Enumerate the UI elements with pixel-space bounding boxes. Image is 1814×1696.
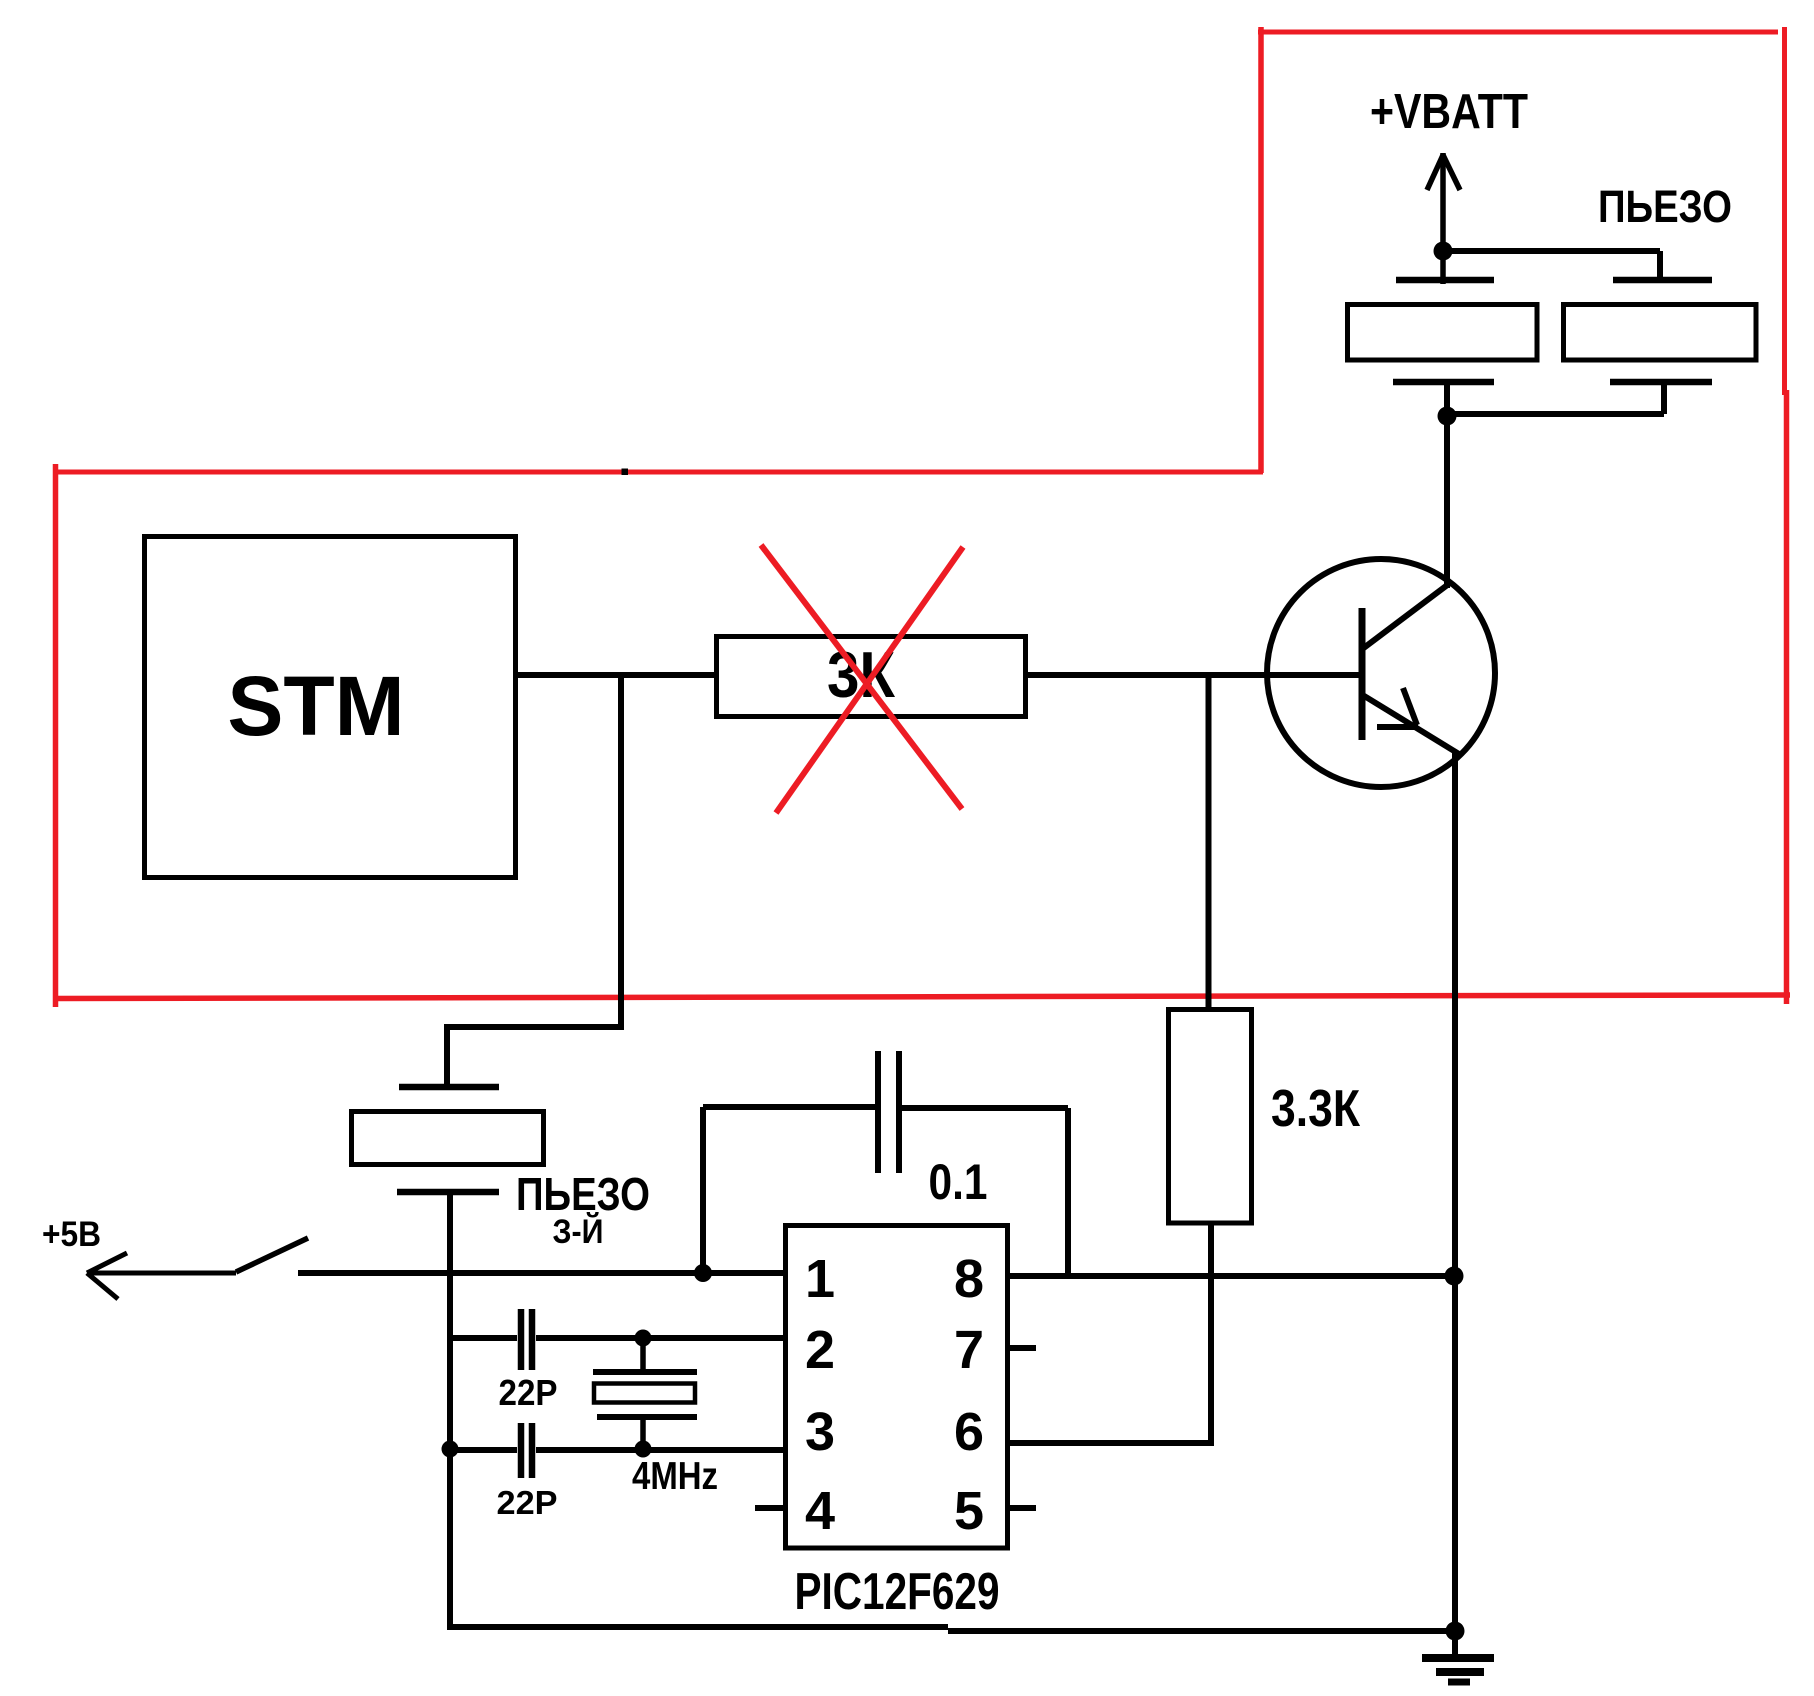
wire crystal bottom stem — [640, 1417, 646, 1450]
wire resistor 3K to transistor base — [1023, 672, 1362, 678]
switch SW1 blade — [236, 1238, 308, 1272]
capacitor C3 0.1 left plate — [875, 1051, 881, 1173]
piezo BZ3 bottom plate — [397, 1189, 499, 1196]
wire PIC pin 8 to right vertical — [1008, 1273, 1455, 1279]
wire PIC pin 6 — [1008, 1440, 1214, 1446]
wire cap 0.1 left horizontal — [703, 1104, 876, 1110]
svg-text:0.1: 0.1 — [929, 1154, 988, 1210]
svg-text:1: 1 — [805, 1249, 835, 1309]
transistor Q1 collector diagonal — [1361, 583, 1450, 650]
svg-text:4MHz: 4MHz — [632, 1455, 718, 1498]
wire pin 3 left segment — [450, 1447, 517, 1453]
wire red outline upper-left vertical — [1258, 27, 1264, 473]
wire pin 3 right segment — [536, 1447, 786, 1453]
svg-text:+5В: +5В — [42, 1215, 101, 1254]
power arrow +5V lower wing — [87, 1273, 118, 1299]
capacitor C2 22P right plate — [529, 1423, 536, 1478]
resistor R1 3K box — [717, 637, 1026, 717]
piezo BZ3 top plate — [399, 1084, 499, 1091]
wire cap 0.1 left vertical — [700, 1107, 706, 1273]
piezo BZ2 right bottom plate — [1610, 379, 1712, 386]
svg-text:PIC12F629: PIC12F629 — [795, 1563, 1000, 1621]
piezo BZ1 left top plate — [1396, 277, 1494, 284]
piezo BZ2 right top plate — [1613, 277, 1712, 284]
svg-text:+VBATT: +VBATT — [1370, 85, 1528, 139]
wire bottom rail left part — [450, 1624, 948, 1630]
svg-text:6: 6 — [954, 1402, 984, 1462]
node tick artifact on red middle line — [622, 469, 629, 476]
node junction crystal top — [635, 1330, 652, 1347]
ground bar 2 — [1436, 1668, 1484, 1676]
wire STM branch horizontal — [445, 1024, 624, 1030]
wire bottom rail right part — [948, 1628, 1455, 1634]
wire red outline right vertical lower — [1784, 390, 1790, 1004]
svg-text:22P: 22P — [499, 1372, 558, 1413]
svg-text:STM: STM — [227, 659, 404, 753]
wire pin 2 left segment — [450, 1335, 517, 1341]
wire right piezo top vertical — [1657, 251, 1663, 283]
crystal X1 bottom plate — [597, 1414, 697, 1420]
node junction piezo bottoms — [1438, 407, 1457, 426]
IC U2 PIC12F629 box — [786, 1226, 1008, 1549]
wire pin 2 right segment — [536, 1335, 786, 1341]
pin 4 stub — [755, 1505, 783, 1511]
resistor R2 3.3K box — [1169, 1010, 1252, 1224]
node junction ground — [1446, 1622, 1465, 1641]
power arrow +5V shaft — [87, 1271, 236, 1276]
capacitor C1 22P right plate — [529, 1309, 536, 1370]
wire red outline top horizontal — [1258, 30, 1778, 35]
ground bar 3 — [1448, 1679, 1470, 1686]
wire emitter down long vertical — [1452, 750, 1458, 1634]
wire red outline middle horizontal — [55, 470, 1263, 475]
wire crystal top stem — [640, 1338, 646, 1372]
wire cap 0.1 right horizontal — [901, 1105, 1068, 1111]
red X cross stroke 1 over resistor — [761, 545, 962, 809]
wire resistor 3.3K bottom to pin 6 wire — [1208, 1223, 1214, 1446]
wire branch from base wire down to resistor 3.3K — [1206, 675, 1212, 1010]
svg-text:22P: 22P — [497, 1484, 558, 1521]
power arrow +VBATT right wing — [1443, 155, 1460, 190]
wire STM branch down — [618, 675, 624, 1030]
node junction pin8 wire and emitter vertical — [1445, 1267, 1464, 1286]
power arrow +VBATT left wing — [1427, 155, 1443, 190]
wire right piezo bottom to node — [1447, 411, 1664, 417]
transistor Q1 circle — [1267, 559, 1495, 787]
svg-text:ПЬЕЗО: ПЬЕЗО — [1598, 181, 1732, 232]
ground bar 1 — [1422, 1654, 1494, 1662]
crystal X1 top plate — [593, 1369, 697, 1375]
svg-text:4: 4 — [805, 1481, 835, 1541]
node junction crystal bottom — [635, 1441, 652, 1458]
piezo BZ1 left bottom plate — [1393, 379, 1494, 386]
node junction at cap 0.1 branch — [694, 1264, 712, 1282]
transistor Q1 base bar — [1359, 608, 1366, 740]
wire red outline bottom horizontal — [53, 995, 1790, 999]
power arrow +VBATT stem — [1440, 153, 1446, 284]
svg-text:8: 8 — [954, 1249, 984, 1309]
wire piezo 3 bottom long vertical — [447, 1192, 453, 1630]
svg-text:7: 7 — [954, 1320, 984, 1380]
wire down to piezo 3 top — [444, 1024, 450, 1090]
transistor Q1 emitter arrow barb left — [1377, 724, 1418, 730]
transistor Q1 emitter diagonal — [1361, 694, 1459, 754]
wire cap 0.1 right vertical — [1065, 1108, 1071, 1276]
wire node to right piezo top — [1443, 248, 1660, 254]
svg-text:5: 5 — [954, 1481, 984, 1541]
pin 7 stub — [1008, 1345, 1036, 1351]
piezo BZ2 right body box — [1564, 305, 1757, 361]
ground stem — [1452, 1631, 1458, 1658]
transistor Q1 emitter arrow barb upper — [1403, 688, 1417, 725]
capacitor C3 0.1 right plate — [896, 1051, 902, 1173]
wire STM to resistor 3K — [515, 672, 719, 678]
red X cross stroke 2 over resistor — [776, 547, 963, 813]
wire red outline right vertical upper — [1782, 27, 1787, 395]
power arrow +5V upper wing — [87, 1253, 127, 1273]
wire right piezo bottom vertical — [1661, 382, 1667, 414]
piezo BZ3 body box — [352, 1112, 544, 1165]
IC U1 STM box — [145, 537, 516, 878]
svg-text:З-Й: З-Й — [553, 1212, 604, 1251]
crystal X1 body box — [594, 1384, 695, 1403]
svg-text:3.3К: 3.3К — [1271, 1080, 1360, 1138]
node junction left rail pin3 — [442, 1441, 459, 1458]
capacitor C1 22P left plate — [518, 1309, 525, 1370]
svg-text:3: 3 — [805, 1402, 835, 1462]
wire switch to PIC pin 1 — [298, 1270, 786, 1276]
wire red outline left vertical — [53, 464, 59, 1007]
node junction at VBATT — [1434, 242, 1453, 261]
wire piezo node down to collector — [1444, 382, 1450, 588]
piezo BZ1 left body box — [1348, 305, 1538, 361]
pin 5 stub — [1008, 1505, 1036, 1511]
capacitor C2 22P left plate — [518, 1423, 525, 1478]
svg-text:2: 2 — [805, 1320, 835, 1380]
